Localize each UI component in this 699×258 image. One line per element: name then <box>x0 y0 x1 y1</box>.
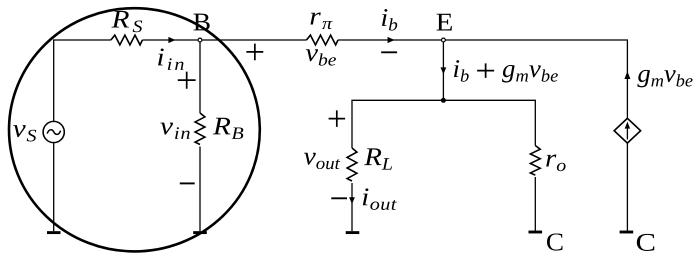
ground right <box>620 231 634 234</box>
arrow i_out down <box>349 197 355 204</box>
arrow i_in <box>168 37 175 43</box>
label v_be <box>306 49 336 65</box>
label RL <box>364 148 392 169</box>
minus vbe <box>381 51 397 53</box>
label i_b <box>382 9 397 31</box>
wire top rail left segment + source column upper <box>54 40 111 121</box>
wire top rail B segment <box>142 39 306 41</box>
dependent source inner arrow <box>626 127 628 140</box>
plus vin <box>178 72 196 89</box>
label r_o <box>546 155 565 172</box>
resistor ro zigzag <box>530 146 540 176</box>
label i_out <box>363 188 397 210</box>
big circle around input stage <box>9 8 260 251</box>
plus vbe <box>246 44 263 61</box>
wire RB column lower <box>199 147 201 232</box>
label B <box>194 14 210 31</box>
label ib+gmvbe <box>454 60 558 82</box>
voltage source vS circle <box>43 121 64 142</box>
label C left <box>547 233 563 250</box>
label r_pi <box>311 12 333 29</box>
resistor RB zigzag <box>195 113 205 145</box>
ground RB <box>193 231 207 234</box>
junction dot <box>441 98 446 103</box>
plus vout <box>329 110 346 127</box>
wire source column lower <box>53 143 55 232</box>
ground RL <box>346 231 360 234</box>
label gmvbe right <box>637 70 692 87</box>
ground source <box>47 231 61 234</box>
label C right <box>637 234 655 251</box>
wire E column down <box>442 40 444 100</box>
resistor RL zigzag <box>347 148 357 181</box>
voltage source sine <box>47 130 60 135</box>
wire RB column upper <box>199 40 201 113</box>
wire ro column lower <box>534 177 536 231</box>
label vS <box>13 125 36 141</box>
wire top rail E segment + right column upper <box>338 40 628 118</box>
label E <box>437 14 452 31</box>
label v_out <box>304 153 340 169</box>
arrow ib+gmvbe down <box>441 67 447 74</box>
arrow i_b <box>388 37 395 43</box>
label i_in <box>158 49 184 70</box>
arrow gmvbe up <box>624 71 630 79</box>
wire RL column lower <box>351 183 353 231</box>
label RB <box>213 118 244 139</box>
dependent source diamond <box>614 118 640 143</box>
label RS <box>111 11 142 32</box>
wire middle horizontal with RL and ro upper stubs <box>352 100 535 148</box>
resistor rpi zigzag <box>307 35 338 45</box>
label v_in <box>160 123 189 139</box>
node E circle <box>442 38 446 42</box>
resistor RS zigzag <box>111 35 143 45</box>
ground ro <box>529 231 543 234</box>
wire right column lower <box>626 144 628 232</box>
minus vin <box>180 182 195 184</box>
minus vout <box>331 197 347 199</box>
node B circle <box>198 38 202 42</box>
